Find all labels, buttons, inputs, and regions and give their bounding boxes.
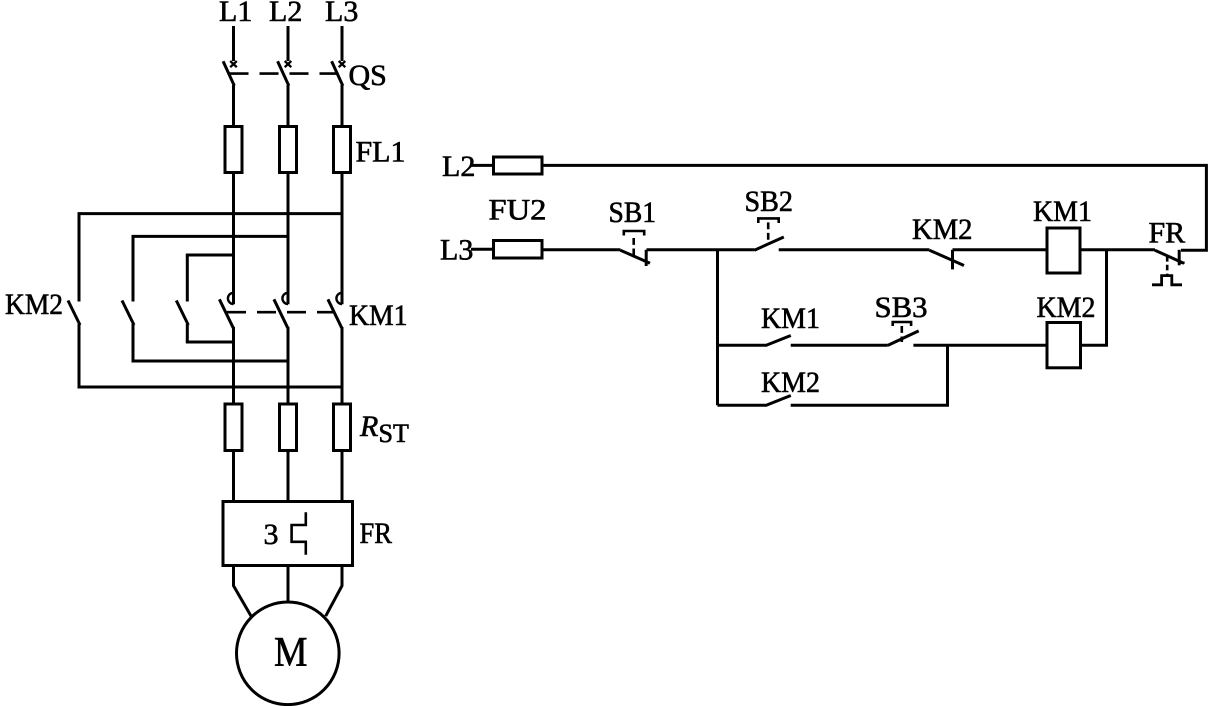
wire L2 rail xyxy=(542,165,1206,250)
contactor KM2 bypass contact 1 (outer) xyxy=(68,214,80,387)
svg-text:QS: QS xyxy=(349,59,387,92)
svg-text:L2: L2 xyxy=(269,0,302,28)
wire inner loop bottom xyxy=(186,341,234,344)
switch QS pole 1 xyxy=(223,61,237,127)
relay FR NC contact xyxy=(1152,250,1185,285)
svg-text:SB3: SB3 xyxy=(875,291,928,324)
svg-text:L3: L3 xyxy=(440,234,473,267)
wire row3 right and up to row2 xyxy=(791,345,948,405)
svg-text:FR: FR xyxy=(1149,217,1186,250)
svg-text:KM1: KM1 xyxy=(1033,195,1092,228)
svg-text:R: R xyxy=(359,410,378,443)
contactor KM1 main contact 3 xyxy=(328,173,342,405)
wire L3 lead-in xyxy=(341,26,344,61)
contactor KM2 NC interlock contact xyxy=(930,250,965,270)
coil KM2 xyxy=(1047,323,1081,368)
QS linkage dashed xyxy=(230,72,344,75)
wire resistor2 to FR xyxy=(287,451,290,502)
FR heater element symbol xyxy=(292,512,307,555)
wire middle loop bottom xyxy=(132,360,289,363)
wire FR to motor 3 xyxy=(326,566,342,617)
svg-text:SB2: SB2 xyxy=(745,185,794,218)
wire inner loop top xyxy=(186,254,234,257)
wire L2 lead-in xyxy=(287,26,290,61)
svg-text:L2: L2 xyxy=(442,150,475,183)
contactor KM1 main contact 2 xyxy=(274,173,288,405)
svg-text:KM1: KM1 xyxy=(349,299,408,332)
wire FR to motor 2 xyxy=(287,566,290,603)
svg-text:M: M xyxy=(274,630,308,676)
svg-text:L3: L3 xyxy=(325,0,358,28)
motor M xyxy=(236,602,339,705)
pushbutton SB3 (NO) xyxy=(888,322,919,345)
resistor RST 2 xyxy=(280,404,297,451)
svg-text:KM1: KM1 xyxy=(761,302,820,335)
svg-text:ST: ST xyxy=(379,419,409,448)
contactor KM1 main contact 1 xyxy=(219,173,233,405)
svg-text:FU2: FU2 xyxy=(489,194,547,227)
svg-text:KM2: KM2 xyxy=(761,366,820,399)
resistor RST 1 xyxy=(225,404,242,451)
wire KM1 coil to FR contact xyxy=(1080,248,1155,251)
wire branch vertical (left) xyxy=(716,250,719,405)
svg-text:KM2: KM2 xyxy=(1037,291,1096,324)
contactor KM2 NO self-hold contact xyxy=(765,396,791,406)
wire FR to motor 1 xyxy=(234,566,252,617)
wire outer loop top xyxy=(78,212,343,215)
switch QS pole 3 xyxy=(332,61,346,127)
wire SB3 to KM2 coil xyxy=(913,344,1047,347)
KM1 linkage dashed xyxy=(227,311,333,314)
wire FU2 to SB1 xyxy=(542,248,621,251)
wire L3 stub xyxy=(471,248,494,251)
svg-text:L1: L1 xyxy=(219,0,252,28)
pushbutton SB1 (NC stop) xyxy=(620,231,650,266)
fuse FL1 pole 3 xyxy=(334,127,351,173)
svg-text:FR: FR xyxy=(360,517,393,550)
fuse FU2 xyxy=(494,241,543,259)
wire SB2 to KM2 NC xyxy=(779,248,930,251)
wire middle loop top xyxy=(132,235,289,238)
pushbutton SB2 (NO start) xyxy=(754,218,783,250)
contactor KM1 NO aux contact xyxy=(765,336,791,346)
svg-text:SB1: SB1 xyxy=(609,196,657,229)
coil KM1 xyxy=(1047,228,1080,273)
fuse FL1 pole 1 xyxy=(225,127,242,173)
svg-text:3: 3 xyxy=(264,518,279,551)
wire row2 left xyxy=(718,344,766,347)
wire resistor3 to FR xyxy=(341,451,344,502)
svg-text:FL1: FL1 xyxy=(356,136,406,169)
wire SB1 to SB2 xyxy=(647,248,755,251)
wire KM1 aux to SB3 xyxy=(791,344,888,347)
wire row3 left xyxy=(718,404,766,407)
fuse FU (L2 branch) xyxy=(494,157,543,174)
fuse FL1 pole 2 xyxy=(280,127,297,173)
wire L1 lead-in xyxy=(232,26,235,61)
contactor KM2 bypass contact 3 (inner) xyxy=(176,255,188,342)
svg-text:KM2: KM2 xyxy=(912,213,973,246)
contactor KM2 bypass contact 2 (middle) xyxy=(122,236,134,361)
wire outer loop bottom xyxy=(78,386,343,389)
wire resistor1 to FR xyxy=(232,451,235,502)
switch QS pole 2 xyxy=(278,61,292,127)
svg-text:KM2: KM2 xyxy=(5,288,63,321)
resistor RST 3 xyxy=(334,404,351,451)
relay FR heater box xyxy=(223,502,353,566)
wire KM2 coil up to row1 xyxy=(1081,250,1107,345)
wire L2 stub xyxy=(471,164,494,167)
label RST xyxy=(359,410,409,448)
wire KM2 NC to KM1 coil xyxy=(953,248,1048,251)
